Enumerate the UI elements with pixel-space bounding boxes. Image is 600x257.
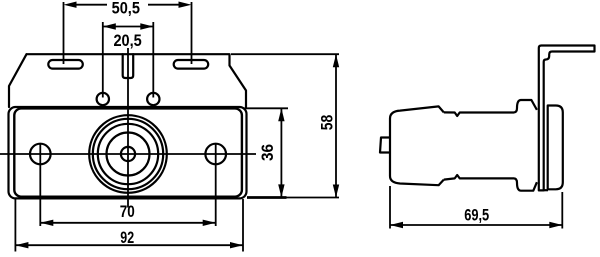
dimension 36 [243,108,288,197]
bracket slot right [174,60,209,69]
side view neck and barrel bottom profile [444,175,537,191]
svg-text:58: 58 [318,115,337,131]
small hole upper-left [97,93,109,105]
horizontal centerline front view [0,153,256,155]
dimension 70 [40,144,215,226]
bracket slot left [48,60,83,69]
lens ring r21 [107,133,150,176]
mounting hole right [205,144,226,165]
lens ring r39 [89,115,167,193]
dimension 58 [231,54,339,197]
side view lamp body [380,46,595,191]
side view rear plate [548,106,563,190]
dimension 92 [15,199,243,252]
svg-text:70: 70 [120,202,135,221]
housing outer rounded rect [9,107,247,198]
lens center circle [121,147,135,161]
dimension 50,5 [64,2,192,65]
lens ring r35 [93,119,163,189]
small hole upper-right [147,93,159,105]
vertical centerline front view [127,48,129,208]
dimension 20,5 [103,22,154,98]
front view mounting bracket outline [9,54,246,107]
lens face inner rounded rect [14,108,242,196]
side view bracket strip and arm [539,46,595,191]
side view neck and barrel top profile [444,100,537,116]
svg-text:50,5: 50,5 [112,0,140,17]
dimension 69,5 [390,186,562,229]
lens ring r30 [98,124,158,184]
side view lens block [390,106,444,185]
svg-text:36: 36 [258,144,277,161]
mounting hole left [30,144,51,165]
svg-text:69,5: 69,5 [464,206,489,225]
side view connector tab [380,138,390,153]
bracket center notch [123,54,134,78]
svg-text:92: 92 [120,228,134,247]
svg-text:20,5: 20,5 [113,31,141,50]
